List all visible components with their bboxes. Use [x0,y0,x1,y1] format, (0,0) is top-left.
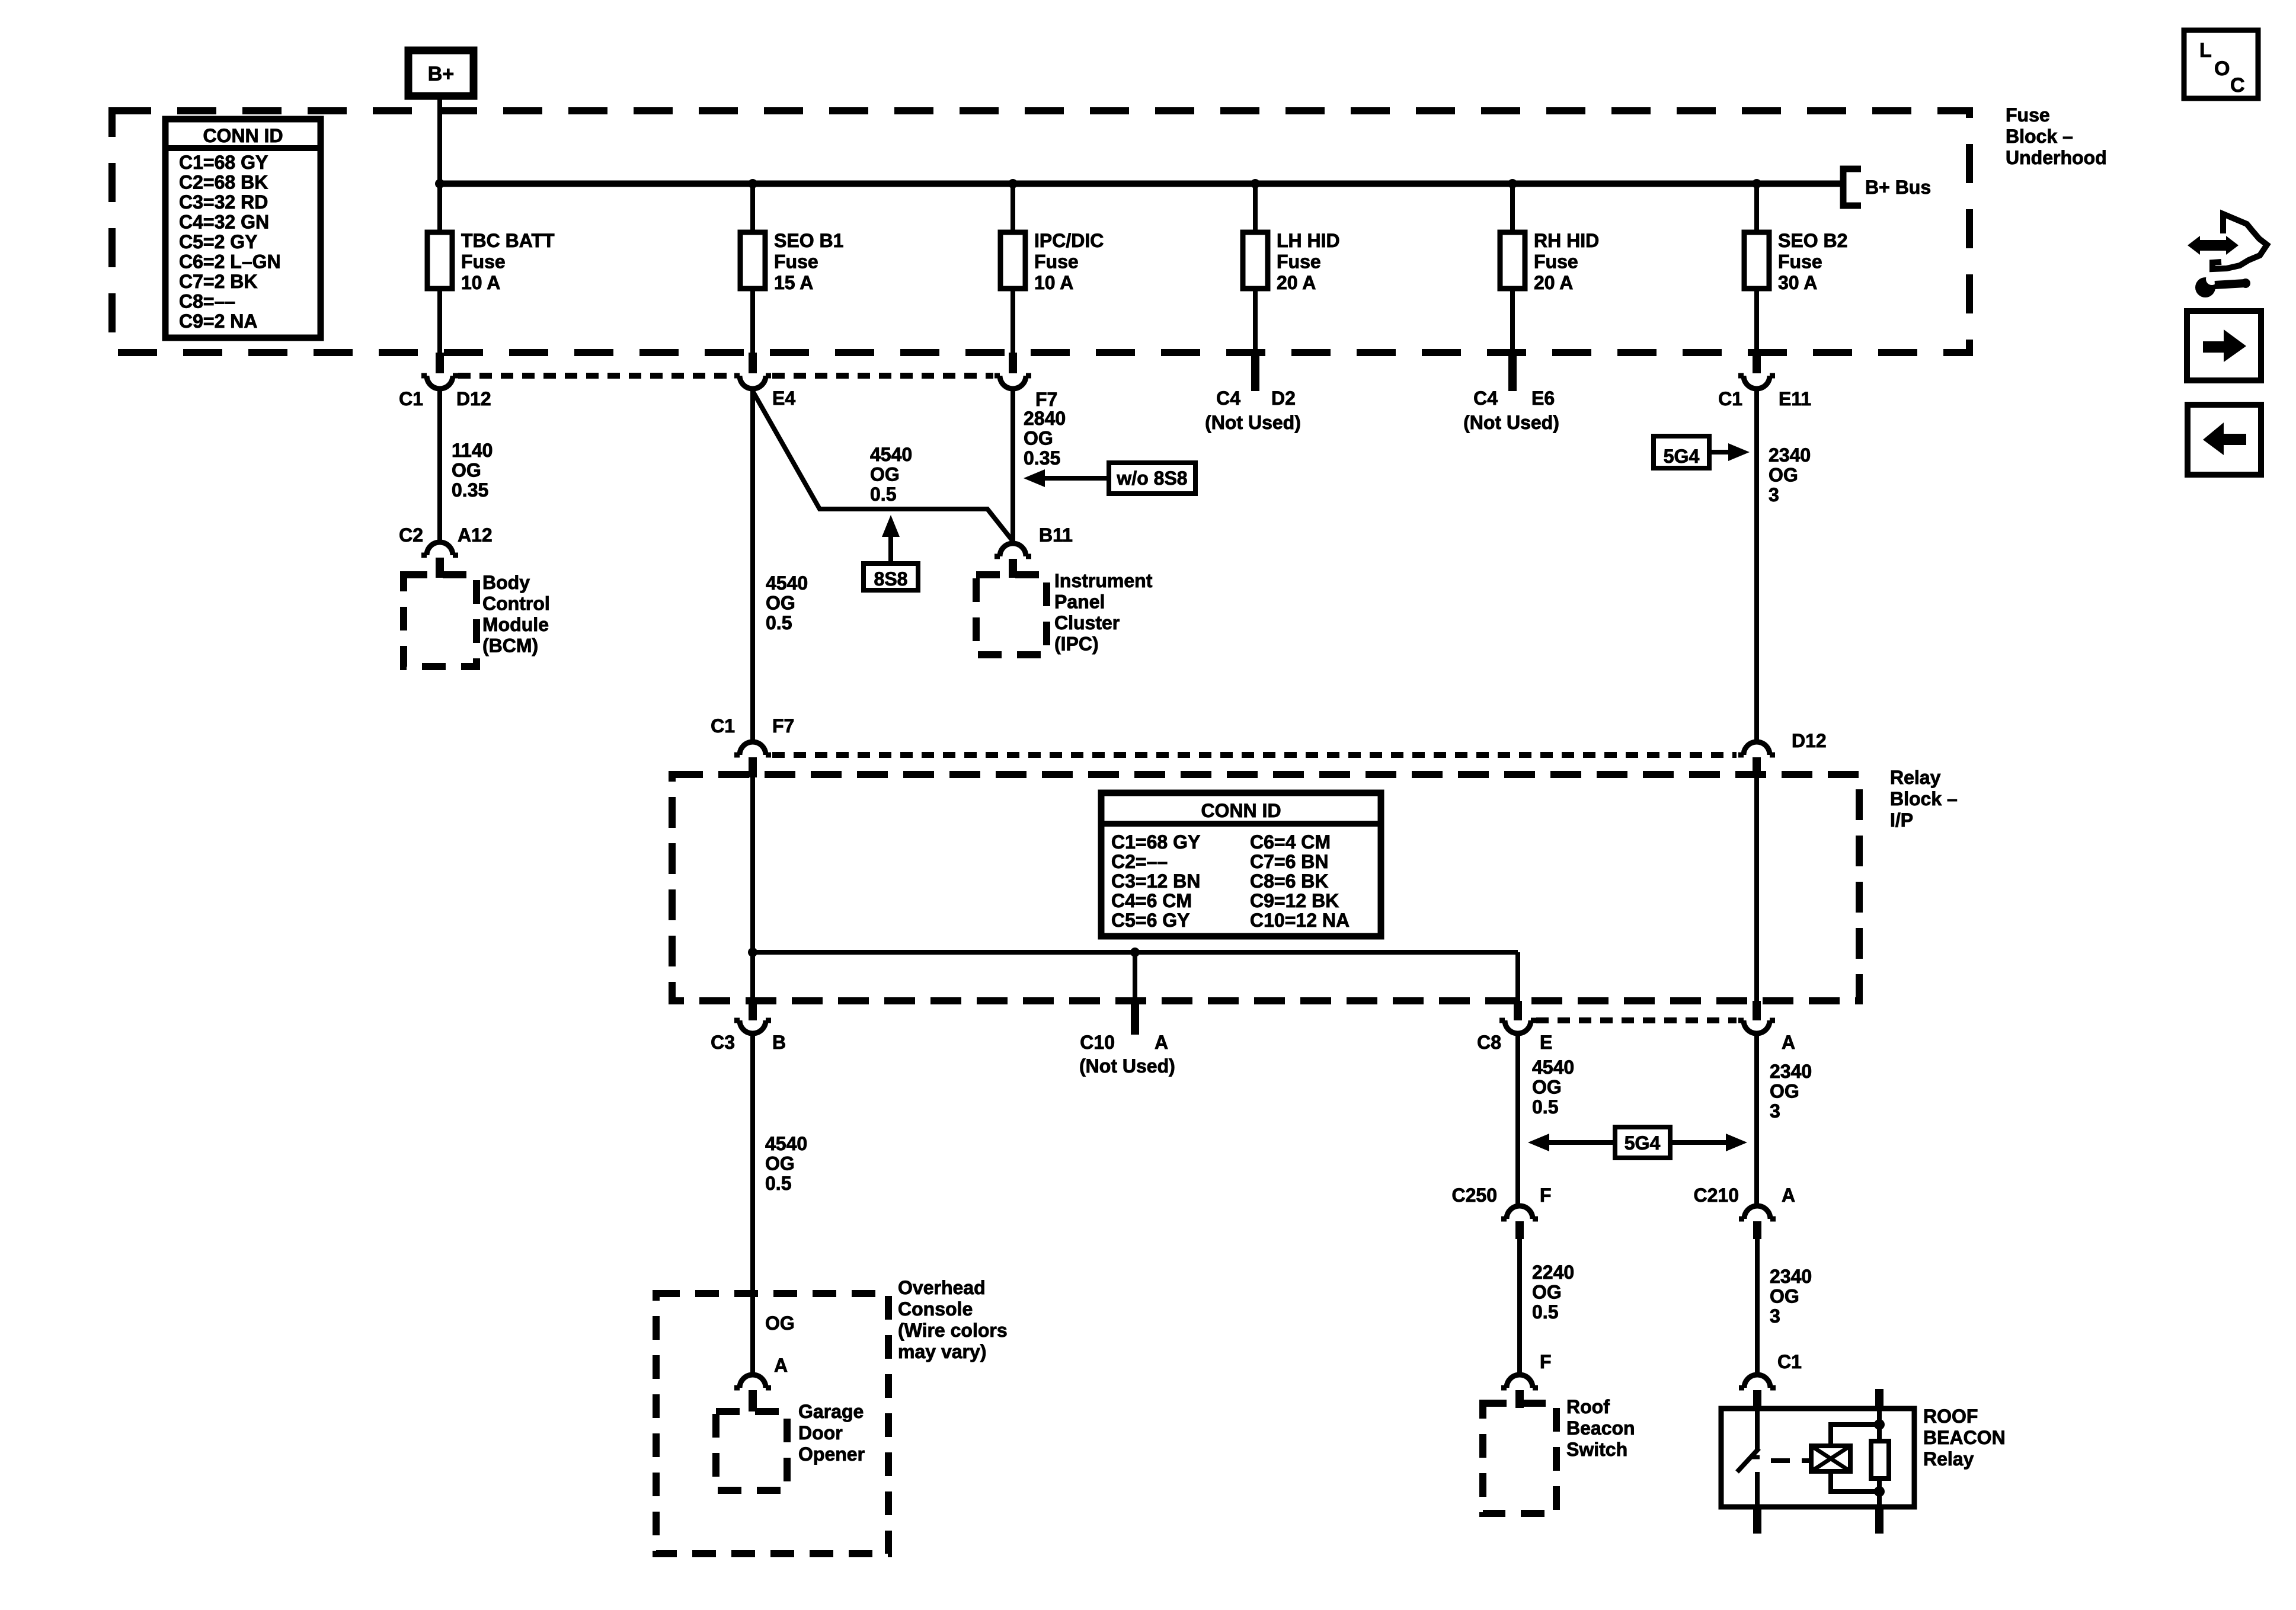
svg-text:Instrument: Instrument [1054,570,1153,591]
svg-text:15 A: 15 A [774,272,813,293]
svg-text:A12: A12 [458,524,493,546]
svg-text:RH HID: RH HID [1534,230,1599,251]
svg-text:2840: 2840 [1024,408,1066,429]
svg-text:4540: 4540 [766,572,808,594]
svg-text:4540: 4540 [870,444,912,465]
connector C4 D2 not used stub [1251,353,1259,391]
wire C10 drop [1133,952,1137,1001]
svg-text:OG: OG [1770,1286,1799,1307]
svg-text:I/P: I/P [1890,809,1913,831]
wire C250 F to roof beacon switch (2240 OG 0.5) [1517,1239,1522,1375]
svg-text:B11: B11 [1039,524,1073,546]
svg-text:D12: D12 [456,388,491,409]
wire E4 branch diagonal to IPC B11 [753,391,1012,540]
svg-text:10 A: 10 A [1034,272,1073,293]
wire SEO B2 E11 down (2340 OG 3) [1754,389,1759,742]
svg-text:Opener: Opener [798,1443,865,1465]
svg-text:8S8: 8S8 [874,568,908,590]
fuse SEO B1 15 A [750,184,755,232]
svg-text:C: C [2230,74,2245,97]
fuse IPC/DIC 10 A [1011,184,1015,232]
svg-text:10 A: 10 A [461,272,500,293]
svg-text:LH HID: LH HID [1277,230,1340,251]
connector C210 A [1739,1206,1776,1219]
relay mechanical dashed link [1771,1458,1790,1463]
svg-text:C4=6 CM: C4=6 CM [1111,890,1192,911]
svg-text:0.5: 0.5 [1532,1096,1558,1118]
svg-text:E4: E4 [772,388,795,409]
splice callout 8S8 box and arrow [888,536,893,564]
relay coil [1811,1446,1850,1471]
svg-text:0.5: 0.5 [870,484,896,505]
svg-text:(IPC): (IPC) [1054,633,1099,655]
svg-text:C4: C4 [1473,388,1498,409]
svg-text:Switch: Switch [1566,1439,1627,1460]
junction dot [1874,1486,1885,1497]
svg-text:OG: OG [765,1313,795,1334]
svg-text:F: F [1540,1351,1552,1372]
svg-text:O: O [2214,57,2230,80]
wire OG inside console [750,1294,755,1375]
vehicle nav icon outline [2212,214,2267,269]
svg-text:Fuse: Fuse [1778,251,1822,273]
splice callout 5G4 double arrow [1615,1127,1670,1158]
svg-text:A: A [1155,1032,1168,1053]
svg-text:C8=6 BK: C8=6 BK [1250,870,1329,892]
svg-text:Relay: Relay [1890,767,1941,788]
svg-text:Beacon: Beacon [1566,1417,1635,1439]
junction dot [1130,948,1140,957]
svg-text:Fuse: Fuse [1534,251,1578,273]
Instrument Panel Cluster dashed box [976,575,1047,655]
svg-text:2340: 2340 [1770,1061,1812,1082]
svg-text:2340: 2340 [1770,1266,1812,1287]
svg-text:w/o 8S8: w/o 8S8 [1116,468,1187,489]
svg-text:C5=2 GY: C5=2 GY [179,231,258,252]
svg-text:OG: OG [452,460,481,481]
svg-text:5G4: 5G4 [1625,1132,1661,1154]
svg-text:OG: OG [1769,465,1798,486]
Relay Block - I/P dashed boundary [672,774,1859,1001]
fuse TBC BATT 10 A [437,184,442,232]
svg-text:C7=6 BN: C7=6 BN [1250,851,1329,872]
svg-text:C10=12 NA: C10=12 NA [1250,910,1350,931]
svg-text:Fuse: Fuse [1277,251,1321,273]
svg-text:C1: C1 [1777,1351,1802,1372]
svg-text:4540: 4540 [765,1133,807,1154]
svg-text:C8: C8 [1477,1032,1501,1053]
svg-text:C7=2 BK: C7=2 BK [179,271,258,292]
svg-text:CONN ID: CONN ID [203,125,283,146]
svg-text:C4=32 GN: C4=32 GN [179,212,269,233]
svg-text:IPC/DIC: IPC/DIC [1034,230,1104,251]
wire C210 A to relay (2340 OG 3) [1755,1239,1760,1375]
svg-text:C1=68 GY: C1=68 GY [1111,831,1200,853]
svg-text:(BCM): (BCM) [482,635,538,657]
relay switch contact [1755,1409,1760,1449]
svg-text:0.35: 0.35 [452,479,488,501]
connector A (garage door opener) [734,1375,771,1388]
svg-text:0.5: 0.5 [766,612,792,633]
svg-text:C2: C2 [399,524,423,546]
connector C3 B [749,1001,757,1020]
svg-text:Fuse: Fuse [2006,104,2050,126]
svg-text:2340: 2340 [1769,444,1811,466]
battery feed B+ box [408,50,474,96]
svg-text:C3=32 RD: C3=32 RD [179,191,268,213]
wire A down (2340 OG 3) [1754,1033,1759,1206]
svg-text:SEO B2: SEO B2 [1778,230,1847,251]
wire 1140 OG 0.35 [437,389,442,542]
svg-text:A: A [1782,1032,1795,1053]
svg-text:C210: C210 [1694,1185,1739,1206]
svg-text:C2=––: C2=–– [1111,851,1168,872]
svg-text:0.5: 0.5 [1532,1301,1558,1323]
svg-text:OG: OG [870,464,900,485]
svg-text:Body: Body [482,572,530,593]
svg-text:Fuse: Fuse [1034,251,1079,273]
wire relay block horizontal [753,950,1518,955]
svg-text:C6=4 CM: C6=4 CM [1250,831,1331,853]
wire C8 E down (4540 OG 0.5) [1515,1033,1520,1206]
svg-text:Garage: Garage [798,1401,864,1422]
svg-text:CONN ID: CONN ID [1201,800,1281,821]
junction dot [1874,1419,1885,1430]
svg-text:ROOF: ROOF [1923,1406,1978,1427]
relay bottom pins [1753,1507,1761,1534]
connector C8 E [1514,1001,1522,1020]
svg-text:Fuse: Fuse [461,251,506,273]
svg-text:C1: C1 [1718,388,1742,409]
connector E4 [734,376,771,389]
svg-text:E6: E6 [1531,388,1555,409]
svg-text:0.35: 0.35 [1024,447,1060,469]
bus junction dots [435,179,445,188]
Overhead Console dashed box [656,1294,888,1554]
svg-text:(Wire colors: (Wire colors [898,1320,1008,1341]
connector B11 [994,543,1031,556]
CONN ID table (fuse block) [165,119,321,338]
svg-text:F: F [1540,1185,1552,1206]
svg-text:30 A: 30 A [1778,272,1817,293]
svg-text:C8=––: C8=–– [179,291,235,312]
svg-text:may vary): may vary) [898,1341,986,1362]
svg-text:2240: 2240 [1532,1262,1574,1283]
svg-text:C3=12 BN: C3=12 BN [1111,870,1200,892]
connector interface dashed line to D12 [772,752,1737,758]
wire B+ to bus [437,96,442,184]
svg-text:B: B [772,1032,786,1053]
svg-text:C250: C250 [1452,1185,1498,1206]
svg-text:Overhead: Overhead [898,1277,986,1298]
connector C4 E6 not used stub [1508,353,1517,391]
fuse block pin stub [749,353,757,373]
svg-text:OG: OG [1532,1077,1562,1098]
fuse block pin stub [436,353,444,373]
svg-text:3: 3 [1769,484,1779,505]
svg-text:Panel: Panel [1054,591,1105,613]
svg-text:TBC BATT: TBC BATT [461,230,555,251]
svg-text:C3: C3 [711,1032,735,1053]
svg-text:E11: E11 [1779,388,1811,409]
svg-text:4540: 4540 [1532,1057,1574,1078]
wire relay block right vertical [1754,777,1759,1001]
svg-text:F7: F7 [772,715,794,737]
option callout w/o 8S8 box and arrow [1109,463,1195,494]
svg-text:5G4: 5G4 [1664,446,1700,467]
svg-text:Block –: Block – [1890,788,1958,809]
connector C1 (roof beacon relay) [1739,1375,1776,1388]
svg-text:E: E [1540,1032,1552,1053]
wire SEO B1 E4 to relay block (4540 OG 0.5) [750,389,755,742]
svg-text:3: 3 [1770,1100,1780,1122]
svg-text:(Not Used): (Not Used) [1205,412,1301,433]
svg-text:Control: Control [482,593,550,614]
svg-text:C2=68 BK: C2=68 BK [179,172,268,193]
svg-text:C9=2 NA: C9=2 NA [179,311,258,332]
svg-text:SEO B1: SEO B1 [774,230,843,251]
svg-text:Block –: Block – [2006,126,2073,147]
svg-text:OG: OG [1532,1282,1562,1303]
connector C10 A not used stub [1131,1001,1139,1035]
relay resistor [1871,1441,1889,1478]
svg-text:Console: Console [898,1298,973,1320]
svg-text:A: A [774,1355,788,1376]
connector C250 F [1501,1206,1538,1219]
wrench icon [2195,277,2215,297]
wire IPC/DIC F7 to B11 (2840 OG 0.35) [1011,389,1015,542]
Fuse Block - Underhood dashed boundary [112,111,1969,353]
svg-text:20 A: 20 A [1534,272,1573,293]
svg-text:1140: 1140 [452,440,493,461]
wire relay block left vertical [750,777,755,1001]
svg-text:0.5: 0.5 [765,1173,791,1194]
ROOF BEACON Relay box [1721,1409,1914,1507]
svg-text:OG: OG [765,1153,795,1174]
connector dashed interface line row 1 [458,373,733,379]
svg-text:C9=12 BK: C9=12 BK [1250,890,1339,911]
relay pin stub top right [1875,1389,1884,1409]
svg-text:C6=2 L–GN: C6=2 L–GN [179,251,281,273]
connector C2 A12 [421,542,458,555]
svg-text:B+: B+ [428,63,454,85]
previous hotspot arrow box [2188,405,2261,475]
svg-text:Underhood: Underhood [2006,147,2107,168]
svg-text:BEACON: BEACON [1923,1427,2006,1448]
splice callout 5G4 box and arrow [1654,436,1709,468]
Roof Beacon Switch dashed box [1483,1403,1556,1513]
svg-text:C1=68 GY: C1=68 GY [179,152,268,173]
svg-text:3: 3 [1770,1305,1780,1327]
B+ bus wire [440,181,1841,187]
svg-text:F7: F7 [1035,389,1057,410]
svg-text:Door: Door [798,1422,843,1443]
connector A (relay block right) [1753,1001,1761,1020]
fuse block pin stub [1009,353,1017,373]
svg-text:Fuse: Fuse [774,251,818,273]
connector D12 (relay block) [1738,742,1775,755]
svg-text:Module: Module [482,614,549,635]
svg-text:C10: C10 [1080,1032,1115,1053]
svg-text:A: A [1782,1185,1795,1206]
fuse RH HID 20 A [1510,184,1515,232]
CONN ID table (relay block) [1101,793,1381,936]
svg-text:Cluster: Cluster [1054,612,1120,633]
svg-text:Relay: Relay [1923,1448,1974,1470]
connector interface dashed line C8 to A [1536,1017,1737,1023]
svg-text:B+ Bus: B+ Bus [1865,177,1931,198]
vehicle nav icon double arrow [2198,240,2230,251]
junction dot [748,948,757,957]
svg-text:C1: C1 [711,715,735,737]
LOC hotspot box [2184,30,2258,98]
Garage Door Opener dashed box [716,1411,787,1490]
svg-text:D2: D2 [1271,388,1296,409]
connector C1 D12 [421,376,458,389]
svg-text:D12: D12 [1792,730,1827,751]
connector F (roof beacon switch) [1501,1375,1538,1388]
svg-text:OG: OG [1024,428,1053,449]
svg-text:C4: C4 [1216,388,1240,409]
wire C3 B to overhead console (4540 OG 0.5) [750,1033,755,1294]
svg-text:OG: OG [1770,1081,1799,1102]
svg-text:L: L [2199,39,2212,62]
svg-text:C5=6 GY: C5=6 GY [1111,910,1190,931]
next hotspot arrow box [2187,311,2261,380]
svg-text:(Not Used): (Not Used) [1079,1055,1175,1077]
svg-text:C1: C1 [399,388,423,409]
B+ bus terminal bracket [1843,169,1861,206]
connector F7 [994,376,1031,389]
fuse LH HID 20 A [1253,184,1258,232]
fuse SEO B2 30 A [1754,184,1759,232]
svg-text:20 A: 20 A [1277,272,1316,293]
connector C1 E11 [1738,376,1775,389]
Body Control Module dashed box [404,575,477,667]
fuse block pin stub [1753,353,1761,373]
wire relay block right branch [1515,952,1520,1001]
svg-text:(Not Used): (Not Used) [1463,412,1559,433]
svg-text:OG: OG [766,593,795,614]
svg-text:Roof: Roof [1566,1396,1610,1417]
